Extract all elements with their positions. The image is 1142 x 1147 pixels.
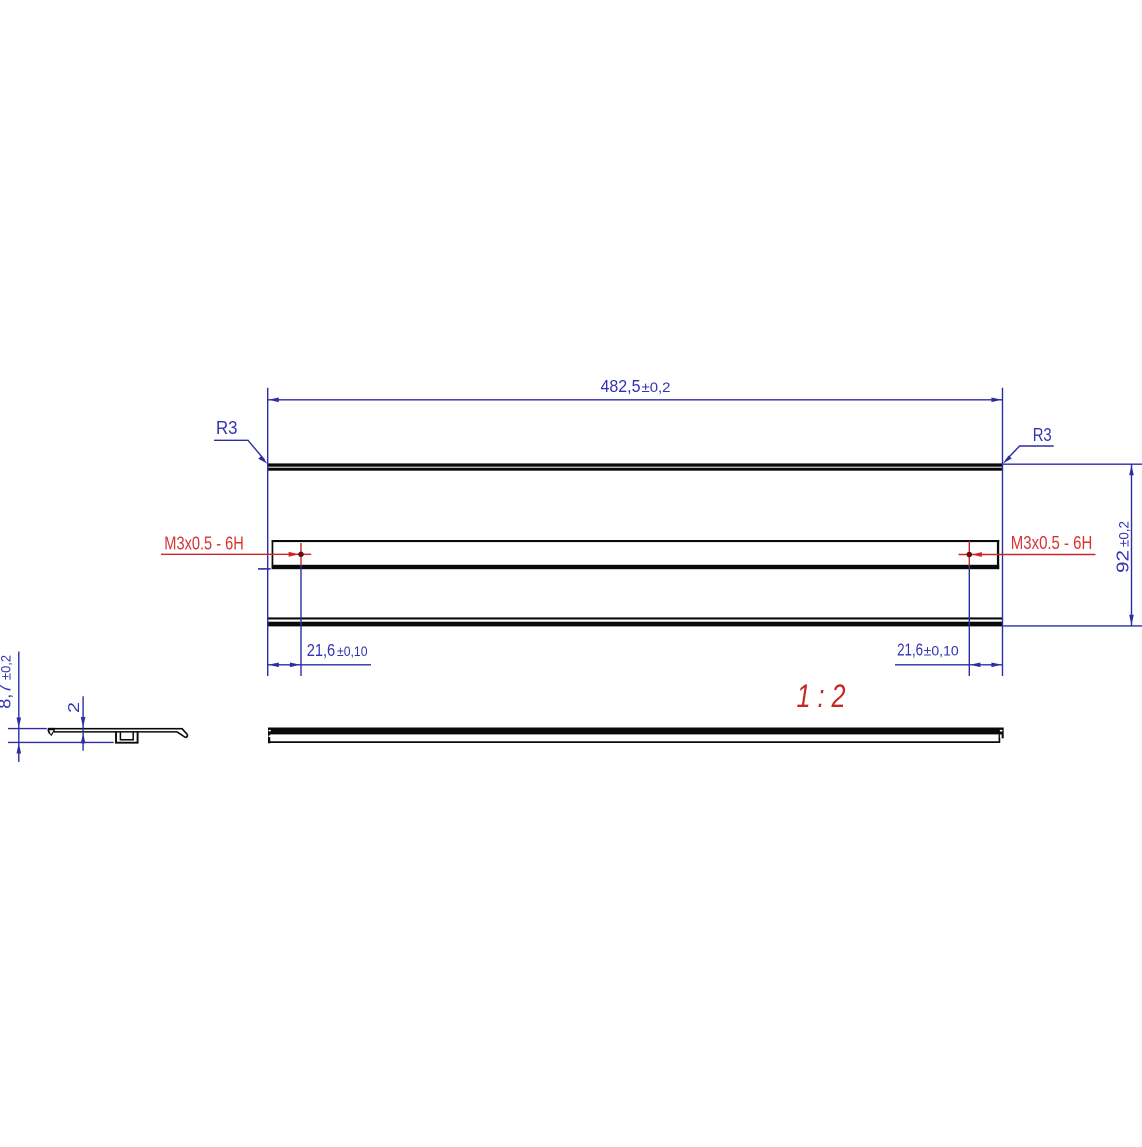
- profile view: right bent tail bottom line: [177, 732, 186, 738]
- svg-text:2: 2: [66, 702, 83, 713]
- arrow top of 92: [1129, 465, 1134, 476]
- short blue tick left of groove bottom: [258, 568, 271, 570]
- svg-text:±0,10: ±0,10: [924, 644, 959, 659]
- 2 dimension line: [82, 696, 84, 750]
- profile view: middle notch inner wall: [120, 732, 133, 740]
- svg-text:M3x0.5 - 6H: M3x0.5 - 6H: [164, 534, 244, 554]
- tapped hole right: red centerline vertical: [968, 541, 970, 568]
- svg-text:21,6: 21,6: [307, 640, 336, 660]
- dimension line 21,6 right: [895, 664, 1003, 666]
- groove band left edge: [272, 540, 274, 569]
- R3 leader left: [214, 440, 265, 460]
- profile view: middle notch outer wall: [116, 732, 138, 743]
- front view: right end white notch lower: [1000, 735, 1002, 737]
- front view: left end white notch lower: [269, 735, 271, 737]
- tapped hole left: center dot: [298, 552, 304, 558]
- 8,7 arrow top (pointing down): [17, 718, 22, 729]
- profile view: left rolled hook: [48, 728, 55, 736]
- hole extension line right (21,6): [968, 566, 970, 676]
- profile view: right tail tip: [186, 734, 188, 737]
- R3 leader right arrowhead: [1003, 456, 1012, 464]
- extension line right (482,5 / 21,6): [1002, 388, 1004, 676]
- profile view: right bent tail top line: [182, 729, 187, 735]
- dimension line 92: [1131, 464, 1133, 626]
- 8,7 arrow bottom (pointing up): [17, 743, 22, 754]
- profile view: bottom surface line: [54, 731, 177, 733]
- profile view: top surface line: [49, 728, 183, 730]
- front view: bottom thin outline: [269, 734, 999, 742]
- hole extension line left (21,6): [300, 566, 302, 676]
- front view: right end white notch upper: [1000, 730, 1003, 732]
- front view: left end edge: [268, 734, 270, 743]
- arrow right of 21,6 right: [991, 663, 1002, 668]
- groove band right edge: [997, 540, 999, 569]
- plate bottom edge (thick line): [268, 622, 1002, 627]
- 8,7 extension line top: [8, 728, 47, 730]
- svg-text:±0,2: ±0,2: [642, 380, 671, 395]
- front view: left end white notch upper: [269, 730, 271, 732]
- tapped hole right: arrow: [971, 552, 982, 557]
- svg-text:92: 92: [1113, 550, 1133, 573]
- groove band bottom thick line: [272, 565, 1000, 569]
- 2 arrow bottom (pointing up): [81, 733, 86, 744]
- groove band top line: [272, 540, 1000, 542]
- svg-text:±0,10: ±0,10: [337, 644, 368, 659]
- 8,7 dimension line: [18, 652, 20, 763]
- svg-text:R3: R3: [216, 418, 238, 438]
- svg-text:482,5: 482,5: [601, 376, 641, 396]
- arrow right of 21,6 left: [290, 663, 301, 668]
- tapped hole left: arrow: [289, 552, 300, 557]
- extension line top of 92: [1003, 463, 1142, 465]
- arrow left of 21,6 right: [970, 663, 981, 668]
- svg-text:21,6: 21,6: [897, 640, 923, 660]
- tapped hole left: red centerline horizontal / leader: [161, 553, 311, 555]
- 8,7 extension line bottom: [8, 741, 114, 743]
- svg-text:8,7: 8,7: [0, 684, 15, 709]
- tapped hole left: red centerline vertical: [300, 543, 302, 567]
- plate top edge (lower line): [268, 468, 1002, 471]
- tapped hole right: red centerline horizontal / leader: [959, 554, 1096, 556]
- arrow left of 21,6 left: [268, 663, 279, 668]
- svg-text:±0,2: ±0,2: [1117, 521, 1132, 547]
- svg-text:M3x0.5 - 6H: M3x0.5 - 6H: [1011, 533, 1093, 553]
- extension line left (482,5 / 21,6): [267, 388, 269, 676]
- R3 leader right: [1006, 446, 1054, 460]
- R3 leader left arrowhead: [258, 456, 267, 464]
- front view: main thick bar: [268, 728, 1004, 735]
- svg-text:R3: R3: [1033, 425, 1052, 445]
- profile view: left rolled hook inner white notch: [49, 730, 53, 734]
- svg-text:1 : 2: 1 : 2: [797, 678, 846, 714]
- arrow bottom of 92: [1129, 615, 1134, 626]
- svg-text:±0,2: ±0,2: [0, 655, 14, 680]
- arrow right of 482,5: [991, 398, 1002, 403]
- plate top edge (upper line): [268, 463, 1002, 466]
- front view: right end lower edge: [1002, 734, 1004, 738]
- plate bottom edge (thin line): [268, 617, 1002, 619]
- 2 arrow top (pointing down): [81, 717, 86, 728]
- dimension line 482,5: [268, 399, 1003, 401]
- arrow left of 482,5: [268, 398, 279, 403]
- dimension line 21,6 left: [268, 664, 371, 666]
- tapped hole right: center dot: [967, 552, 973, 558]
- extension line bottom of 92: [1003, 625, 1142, 627]
